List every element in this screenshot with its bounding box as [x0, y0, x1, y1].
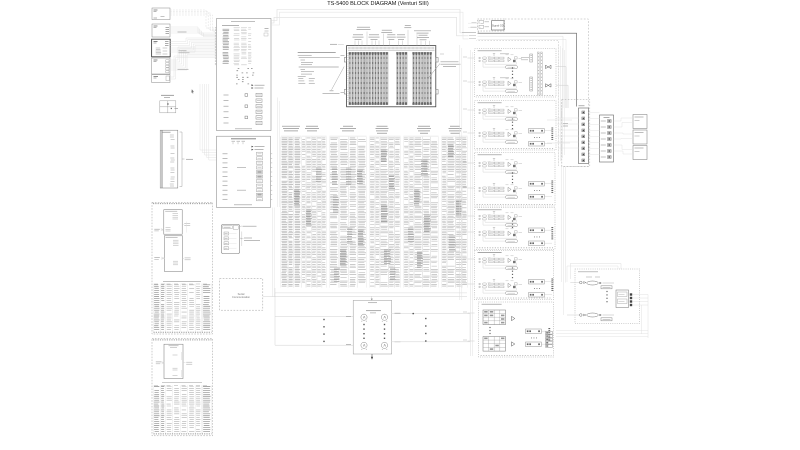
channel card unit 3: [475, 153, 555, 206]
serial communication output wire: [263, 296, 467, 300]
power supply unit A: [633, 115, 647, 129]
GMC wiring table title: [163, 281, 201, 283]
left I/O module box B5: [152, 75, 170, 83]
Dynamic DAC connector wiring table: [154, 385, 212, 434]
signal GD dashed enclosure: [478, 19, 505, 31]
power supply unit B: [633, 130, 647, 144]
converter channel rows: [223, 28, 252, 65]
GMC connector unit dashed enclosure: [152, 202, 213, 334]
connector stripe group 1 (PCI matrix): [349, 52, 388, 105]
table column group 4 rows: [370, 138, 400, 286]
wire label C1: [178, 31, 187, 33]
label comm card connector row B: [397, 35, 406, 46]
table column group 3 rows: [330, 138, 366, 286]
system boundary dashed outline: [505, 19, 589, 167]
left I/O module box B3 (dark border): [152, 39, 171, 57]
mic channel card unit: [575, 269, 640, 324]
main chip clock label: [161, 95, 174, 97]
bus wires above table: [278, 98, 280, 208]
test panel dotted columns: [363, 324, 385, 339]
wire label C3: [178, 68, 189, 70]
oscillator bracket and label: [180, 132, 194, 187]
label video card cable connector row 2: [417, 35, 430, 45]
serial parallel converter module: [217, 19, 272, 131]
connector stripe group 3 (video/misc cables): [412, 52, 431, 105]
detect legend input wire: [252, 149, 254, 151]
converter legend output wire: [252, 84, 254, 86]
label PCI matrix connector row 1: [369, 35, 380, 46]
table darker cell clusters: [294, 145, 462, 281]
chip leader labels: [240, 226, 261, 240]
converter legend input wire: [252, 87, 254, 89]
converter lower channel group: [224, 93, 263, 124]
GMC inner module B: [154, 236, 190, 271]
channel card unit 5: [475, 250, 554, 299]
signal GD output wire to power section: [478, 31, 577, 107]
connector mounting tabs: [344, 58, 438, 95]
naming convention notes: [298, 53, 340, 84]
test panel ground mark: [371, 354, 373, 360]
mic unit output wires: [556, 295, 648, 339]
GMC inner module A: [154, 210, 190, 235]
test panel knob input 1: [361, 314, 367, 321]
test panel dotted wire: [425, 318, 426, 342]
left I/O module box B2: [152, 24, 170, 37]
power section dashed enclosure: [562, 100, 590, 167]
svg-text:Signal GD: Signal GD: [492, 24, 504, 28]
serial communication dashed box: [220, 279, 263, 311]
backplane connector block: [347, 46, 436, 107]
table-to-units vertical bus: [460, 45, 473, 356]
pointer P14 to connector: [323, 67, 345, 94]
label ISA comm pair matrix connector: [357, 27, 371, 45]
channel card unit 1: [475, 49, 556, 97]
converter bottom label: [235, 128, 252, 130]
oscillator module (tall thin box): [160, 130, 178, 188]
converter matrix dots: [236, 69, 254, 84]
svg-text:TS-5400 BLOCK DIAGRAM (Venturi: TS-5400 BLOCK DIAGRAM (Venturi SIII): [327, 1, 429, 7]
Dynamic DAC unit dashed enclosure: [152, 339, 213, 436]
signal GD box: [492, 21, 505, 30]
main chip clock crosshair box: [160, 101, 178, 113]
mic unit corner loop wires: [567, 264, 621, 316]
channel card unit 2: [475, 101, 556, 150]
left I/O module box B1: [152, 8, 170, 20]
jumper to fuse wires: [589, 113, 600, 155]
Dynamic DAC wiring table title: [162, 382, 202, 384]
channel units boundary dashed outline: [477, 41, 559, 167]
vertical wires right of detect module: [272, 208, 274, 297]
test panel knob output 2: [381, 342, 387, 350]
table return bus wire: [275, 288, 467, 293]
label system utility connector: [381, 30, 392, 45]
channel card unit 6 (matrix): [479, 302, 554, 357]
label misc cable connector: [414, 31, 431, 46]
dotted signal column left of panel: [323, 319, 324, 342]
table column group 2 rows: [302, 138, 326, 286]
power supply unit C: [633, 146, 647, 160]
Dynamic DAC inner module: [156, 344, 192, 378]
connector side pin labels: [341, 54, 445, 93]
table column separator lines: [281, 137, 468, 288]
channel card unit 4: [475, 208, 555, 250]
signal GD input labels: [479, 20, 489, 28]
connector reference label P-Pxxx: [428, 62, 461, 79]
signal GD left wires: [462, 23, 481, 39]
connector inner left ticks: [347, 54, 348, 102]
detect channel rows: [223, 152, 263, 201]
table column group 6 rows: [442, 138, 467, 286]
signal GD secondary wires: [478, 36, 566, 108]
table header underlines: [281, 135, 468, 137]
chip card module: [222, 224, 240, 253]
fuse block: [600, 115, 614, 162]
jumper header connector: [579, 106, 589, 164]
bus wires into power section: [556, 118, 579, 148]
unit input stub wires: [463, 57, 475, 341]
table column group 5 rows: [404, 138, 438, 286]
power to mic unit vertical wires: [562, 167, 566, 316]
table column group 1 rows: [282, 138, 301, 286]
chip side bracket: [241, 232, 242, 247]
wire bundle from left modules to serial-parallel converter: [170, 10, 216, 160]
top bus wire 1: [271, 10, 462, 33]
left I/O module box B4: [152, 58, 170, 74]
label audio card connector row B: [387, 35, 396, 46]
test panel knob input 2: [361, 342, 367, 350]
detect module right pin ticks: [271, 154, 273, 200]
wire to test panel inputs: [275, 293, 353, 345]
detect header ticks: [232, 141, 246, 144]
detect bottom label: [234, 204, 252, 206]
parallel detect module: [217, 136, 271, 207]
top bus wire 3: [271, 12, 468, 39]
connector stripe group 2 (comm cables): [396, 52, 407, 105]
label PCI matrix connector row 0: [353, 35, 364, 46]
ICA slot note: [330, 43, 344, 45]
power mains label: [563, 124, 568, 127]
wire label C2: [179, 51, 190, 53]
label video card cable connector row 1: [404, 25, 411, 45]
converter pin ticks: [215, 28, 217, 65]
inter-unit bus wires right: [547, 44, 572, 164]
test panel labels: [346, 313, 401, 344]
top bus wire 2: [271, 17, 468, 36]
detect legend output wire: [252, 146, 254, 148]
test panel output wires: [392, 313, 470, 342]
fuse to PSU wires: [614, 118, 634, 154]
GMC connector wiring table: [154, 284, 212, 333]
svg-text:Communication: Communication: [232, 295, 251, 299]
test panel knob output 1: [381, 314, 387, 321]
cursor mark: [191, 89, 194, 93]
central wiring list table: [282, 126, 462, 133]
master under test panel: [353, 300, 392, 354]
converter corner pins: [264, 29, 269, 37]
